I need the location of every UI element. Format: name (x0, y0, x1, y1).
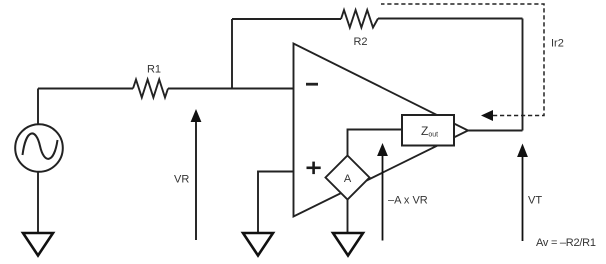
svg-text:R1: R1 (147, 64, 161, 76)
wire input left (38, 88, 133, 90)
svg-text:Av = –R2/R1: Av = –R2/R1 (536, 237, 596, 249)
svg-text:A: A (344, 173, 352, 185)
wire output (468, 130, 523, 132)
wire feedback top right (378, 18, 523, 20)
op-amp non-inverting input plus sign (307, 162, 321, 175)
svg-text:–A x VR: –A x VR (388, 195, 428, 207)
wire source bottom (37, 172, 39, 234)
svg-text:R2: R2 (353, 36, 367, 48)
wire A to Zout (348, 130, 403, 156)
wire source top vertical (37, 89, 39, 125)
AC source V1 (15, 124, 63, 172)
dashed current path Ir2 (381, 4, 544, 116)
op-amp U1 (294, 44, 469, 217)
ground (source) (23, 233, 53, 256)
svg-text:Ir2: Ir2 (551, 38, 564, 50)
ground (A) (333, 233, 363, 256)
svg-text:VT: VT (528, 195, 542, 207)
impedance block Zout (402, 115, 454, 146)
resistor R1 (133, 80, 168, 98)
op-amp inverting input minus sign (306, 83, 318, 86)
arrowhead Ir2 (481, 110, 493, 121)
wire feedback top left (232, 18, 341, 20)
dependent source A (diamond) (326, 156, 370, 200)
arrow VT (517, 144, 528, 242)
wire feedback left vertical (231, 19, 233, 89)
wire feedback right vertical (522, 19, 524, 131)
resistor R2 (341, 10, 378, 28)
wire A to ground (347, 200, 349, 234)
ground (plus input) (243, 233, 273, 256)
wire plus input (258, 172, 294, 234)
arrow VR (191, 109, 202, 240)
arrow -A x VR (377, 143, 388, 241)
wire R1 to inverting input (168, 88, 294, 90)
svg-text:VR: VR (174, 174, 189, 186)
